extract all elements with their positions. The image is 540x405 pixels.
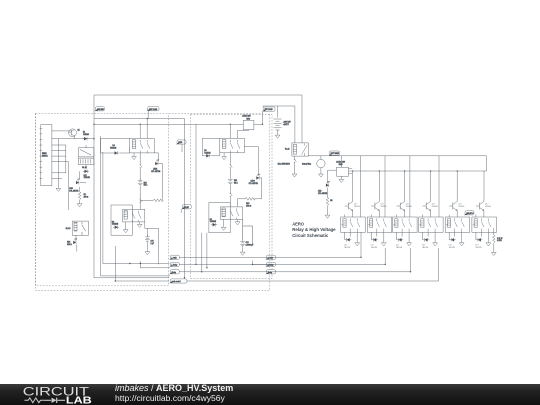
net tag RELAY 8	[464, 211, 474, 216]
dashed region box D1	[36, 113, 263, 285]
connector J1	[40, 125, 52, 186]
resistor R2	[78, 187, 89, 200]
net tag In-Relay (left col)	[169, 255, 179, 260]
led LED CTL-3ETSB	[318, 170, 337, 197]
svg-text:270 Ω: 270 Ω	[84, 197, 89, 199]
svg-text:R3: R3	[330, 200, 332, 202]
diode D1? 7AX14B	[83, 170, 91, 180]
svg-text:1 16Ω: 1 16Ω	[497, 240, 502, 242]
svg-text:REG: REG	[339, 164, 343, 166]
svg-text:GRN HID: GRN HID	[97, 109, 105, 111]
net tag main-control (left col)	[169, 279, 187, 283]
svg-text:RELAY 8: RELAY 8	[467, 212, 474, 215]
svg-text:KILL SWITCHES: KILL SWITCHES	[278, 164, 290, 166]
svg-text:CTL-3ETSB: CTL-3ETSB	[69, 190, 79, 192]
svg-text:LAB: LAB	[66, 395, 92, 405]
relay cluster 1	[341, 199, 366, 249]
svg-text:Q1: Q1	[78, 130, 80, 132]
ground under R2	[79, 200, 81, 202]
net tag REG	[176, 140, 186, 145]
wire: nested vertical left	[100, 136, 102, 276]
svg-text:1.0000 µF: 1.0000 µF	[246, 245, 254, 247]
svg-text:RL-16: RL-16	[66, 228, 71, 230]
title text	[292, 222, 336, 238]
net tag BATT MAIN	[328, 151, 339, 156]
net tag L-Relay (left col)	[169, 262, 179, 267]
battery +12V BAT	[274, 106, 291, 138]
relay cluster 5	[445, 199, 470, 249]
net tag GRN HID	[94, 107, 104, 112]
svg-text:+12/7.5: +12/7.5	[283, 124, 289, 126]
relay RL-16	[66, 221, 89, 235]
box AC/DC 12V REG (B1)	[238, 115, 263, 131]
led LED1	[151, 160, 161, 173]
svg-text:REG: REG	[247, 118, 251, 120]
wire: big outer solid loop	[94, 95, 302, 278]
svg-text:AERO: AERO	[292, 222, 304, 227]
wire long verticals mid	[185, 119, 207, 278]
svg-text:Battery Main: Battery Main	[302, 163, 311, 166]
svg-text:D1: D1	[83, 132, 85, 134]
wire connector right stubs	[52, 131, 94, 178]
svg-text:Relay: Relay	[268, 272, 272, 274]
pole2 to LED	[147, 153, 158, 162]
bus verticals	[353, 156, 484, 217]
svg-text:CTL-3ETSB: CTL-3ETSB	[318, 193, 328, 195]
wire long run tag1	[179, 232, 361, 257]
ground under coil	[133, 153, 135, 155]
svg-text:7AX14B: 7AX14B	[84, 176, 91, 179]
svg-text:RL-12: RL-12	[285, 149, 289, 151]
dashed region box D2	[191, 115, 273, 279]
svg-text:L Relay: L Relay	[268, 264, 274, 266]
diode D4	[113, 151, 119, 155]
svg-text:AC/DC 12V: AC/DC 12V	[242, 115, 251, 118]
chain pole 1 down	[139, 153, 141, 163]
svg-text:CTL-3ETSB: CTL-3ETSB	[151, 171, 161, 173]
wire long run tag3	[179, 248, 410, 272]
svg-text:Circuit Schematic: Circuit Schematic	[292, 233, 328, 238]
svg-text:CTL-3ETSB: CTL-3ETSB	[249, 183, 259, 185]
svg-text:XINU2: XINU2	[42, 153, 47, 155]
top pole wires up	[140, 119, 147, 139]
wire long run tag2	[179, 248, 385, 264]
bus upper	[308, 156, 486, 171]
box AC/DC 12V REG (B2) right	[336, 156, 352, 183]
net tag Relay (right col)	[265, 270, 275, 275]
resistor to chain	[153, 199, 163, 202]
svg-text:7AX14B: 7AX14B	[210, 220, 217, 223]
diode D1	[82, 132, 88, 141]
relay cluster 4	[419, 199, 444, 249]
bus lower	[352, 170, 486, 172]
led GTO CTL-3ETSB	[69, 179, 79, 193]
net tag RELAY (mid)	[181, 205, 191, 210]
relay cluster 3	[393, 199, 418, 249]
footer bar	[0, 384, 540, 405]
relay box	[130, 138, 155, 153]
resistor R3	[326, 198, 329, 206]
svg-text:Relay & High Voltage: Relay & High Voltage	[292, 227, 336, 232]
svg-text:BK 1: BK 1	[144, 185, 148, 187]
net tag KEY LOAD	[262, 107, 275, 112]
relay cluster 2	[367, 199, 392, 249]
wire into diode	[101, 138, 130, 153]
svg-text:ROBO1: ROBO1	[42, 155, 48, 157]
svg-text:820 Ω: 820 Ω	[67, 244, 72, 246]
svg-text:BK 1: BK 1	[234, 183, 238, 185]
wire feed into right tags	[253, 261, 270, 265]
wire: key-load top link	[263, 106, 295, 143]
wire: top horizontal bus pair	[94, 119, 243, 125]
resistor R11 (cluster 6)	[493, 228, 495, 235]
wire tag stubs	[148, 111, 262, 124]
led under RL-16	[67, 235, 77, 251]
net tag L-Relay (right col)	[265, 262, 275, 267]
net tag In-Relay (right col)	[265, 255, 275, 260]
wire long run main control	[115, 248, 438, 281]
wire left feeds	[94, 264, 170, 278]
ground under connector	[56, 187, 61, 192]
net tag GRY LOAD	[147, 107, 159, 111]
dashed region box outer	[36, 113, 270, 290]
relay RL-11	[78, 148, 94, 169]
relay RL-12	[285, 143, 308, 156]
svg-text:7AX14B: 7AX14B	[112, 223, 119, 226]
relay cluster 6	[472, 199, 497, 249]
transistor Q1	[69, 129, 80, 137]
svg-text:7AX14B: 7AX14B	[204, 152, 211, 155]
svg-text:L Relay: L Relay	[172, 264, 178, 266]
svg-text:Relay: Relay	[172, 272, 176, 274]
net tag Relay (left col)	[169, 270, 179, 275]
svg-text:7AX14B: 7AX14B	[110, 147, 117, 150]
svg-text:#7D Ω: #7D Ω	[246, 205, 252, 207]
svg-text:1 µF: 1 µF	[151, 243, 154, 245]
